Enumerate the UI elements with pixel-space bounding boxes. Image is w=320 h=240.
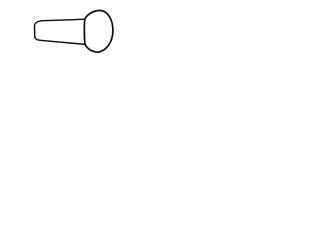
wire handle outline [34, 19, 85, 44]
node head (hand-drawn oval, flat left side) [84, 10, 113, 52]
hand-drawn sketch: handle + elliptical head [0, 0, 150, 62]
